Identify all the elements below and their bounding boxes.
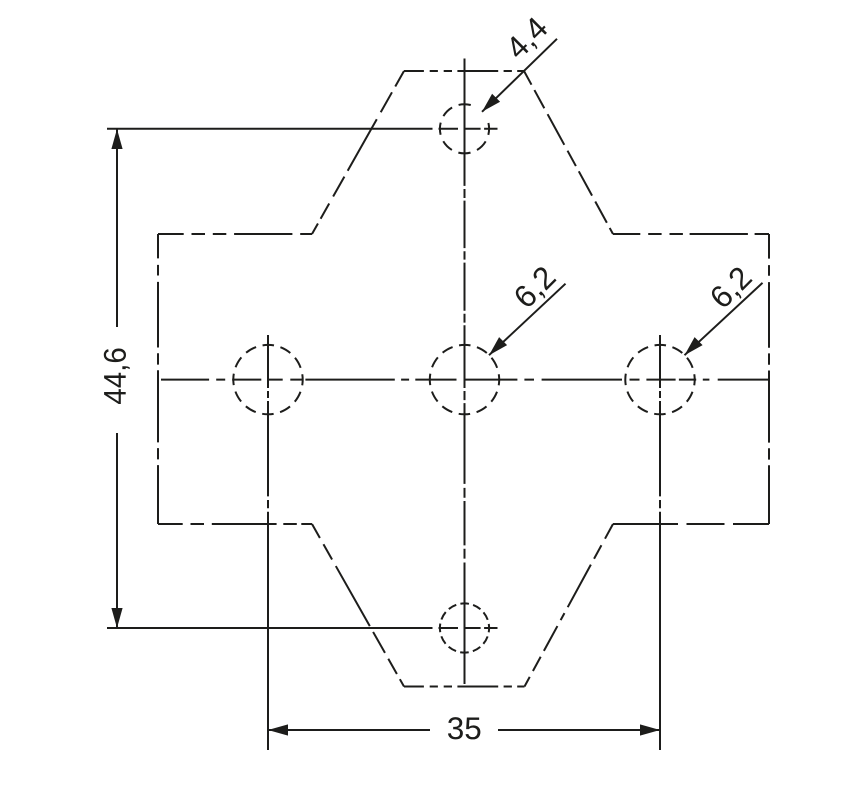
dimension text 44,6 [104,349,130,404]
outline top edge of top tab [404,70,524,72]
bottom hole horizontal center line / extension for 44,6 dim [107,627,498,629]
hole right 6,2 dashed circle [625,345,694,414]
outline bottom edge of bottom tab [404,686,525,688]
outline bottom-left body edge [158,523,312,525]
leader text 4,4 [504,15,552,63]
arrowhead 35 left [268,724,288,735]
outline right slant of bottom tab [525,524,614,687]
leader text right 6,2 [709,265,756,312]
outline top-left body edge [158,233,312,235]
hole top 4,4 dashed circle [440,104,489,153]
hole left 6,2 dashed circle [233,345,302,414]
leader text center 6,2 [512,265,559,312]
outline left slant of bottom tab [312,524,404,687]
left hole vertical center line / extension for 35 dim [267,335,269,750]
arrowhead leader center 6,2 [489,337,507,355]
dimension line 44,6 lower segment [116,433,118,628]
outline top-right body edge [613,233,769,235]
dimension text 35 [448,717,480,739]
arrowhead 44,6 bottom [111,608,122,628]
arrowhead leader right 6,2 [685,337,703,355]
dimension line 35 left segment [268,729,430,731]
outline right slant of top tab [524,71,613,234]
leader line for 4,4 [482,39,557,112]
right hole vertical center line / extension for 35 dim [659,335,661,750]
outline left slant of top tab [312,71,404,234]
arrowhead 44,6 top [111,129,122,149]
top hole horizontal center line / extension for 44,6 dim [107,128,498,130]
hole bottom 4,4 dashed circle [440,603,489,652]
arrowhead 35 right [640,724,660,735]
outline bottom-right body edge [613,523,769,525]
leader line for right 6,2 [685,283,763,355]
outline right body edge [768,234,770,524]
outline left body edge [157,234,159,524]
horizontal center line through middle holes [161,379,769,381]
vertical symmetry center line [464,59,466,685]
dimension line 44,6 upper segment [116,129,118,327]
hole center 6,2 dashed circle [430,345,499,414]
dimension line 35 right segment [498,729,660,731]
leader line for center 6,2 [489,284,566,356]
arrowhead leader 4,4 [482,94,500,112]
